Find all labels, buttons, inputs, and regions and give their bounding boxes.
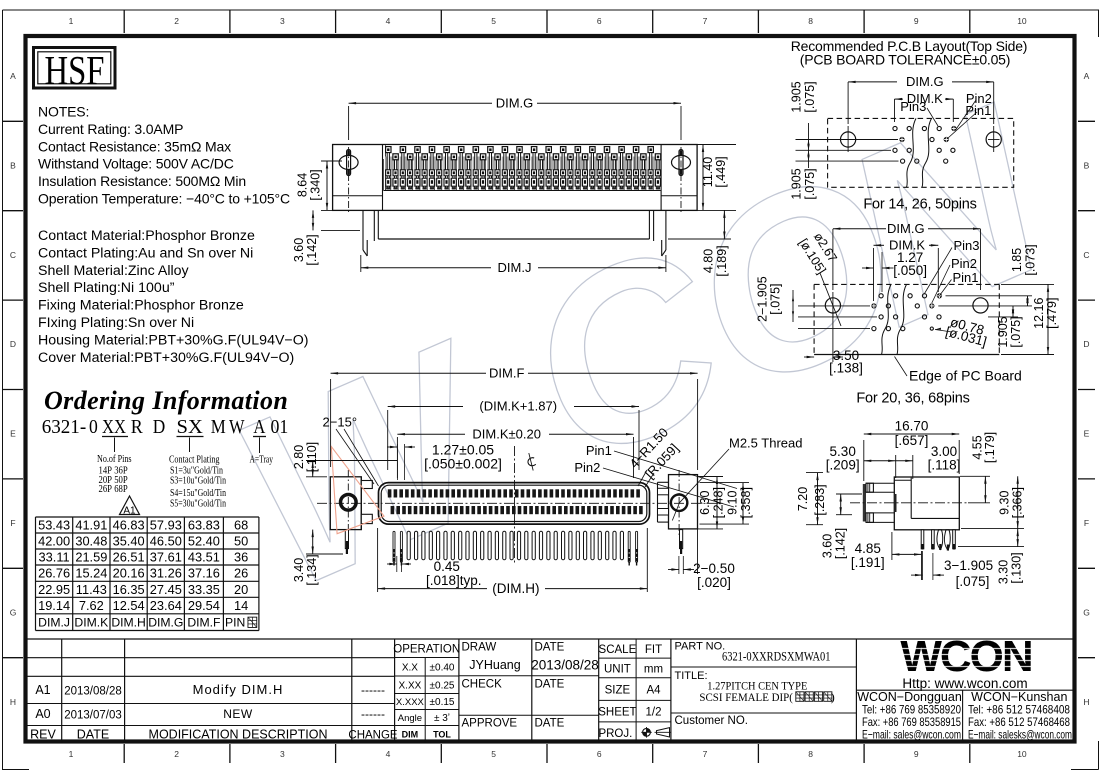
svg-text:31.26: 31.26 [150,566,182,581]
svg-text:0: 0 [89,417,98,438]
pin comb [393,531,395,562]
svg-text:W: W [229,417,245,438]
horizontal centerline [317,502,724,504]
svg-text:1.85: 1.85 [1010,248,1024,272]
svg-text:NEW: NEW [223,707,253,721]
dimension 6.30 and 9.10 right [698,476,724,478]
top connector rear view body [333,145,697,211]
svg-text:[.020]: [.020] [697,575,731,590]
svg-text:9: 9 [914,749,919,759]
svg-text:2−0.50: 2−0.50 [693,561,735,576]
svg-text:DATE: DATE [77,728,109,742]
dimension table [36,516,259,518]
svg-text:12.16: 12.16 [1032,298,1046,329]
svg-text:[.138]: [.138] [829,361,863,376]
svg-text:TOL: TOL [433,730,451,740]
svg-text:2: 2 [174,16,179,26]
svg-text:SCSI FEMALE DIP(: SCSI FEMALE DIP( [699,690,793,704]
svg-text:23.64: 23.64 [150,598,182,613]
svg-text:33.35: 33.35 [188,582,220,597]
svg-text:7: 7 [703,16,708,26]
svg-text:4.80: 4.80 [701,249,715,273]
svg-text:3.60: 3.60 [292,238,306,262]
svg-text:Shell Plating:Ni 100u”: Shell Plating:Ni 100u” [38,280,175,296]
right mounting ear screw [672,155,691,169]
svg-text:21.59: 21.59 [75,550,107,565]
svg-text:2013/08/28: 2013/08/28 [64,686,122,698]
svg-text:11.43: 11.43 [76,582,107,597]
svg-text:Ordering Information: Ordering Information [44,386,288,415]
svg-text:XX: XX [102,417,126,438]
svg-text:[.189]: [.189] [715,245,729,276]
svg-text:M2.5 Thread: M2.5 Thread [729,436,802,451]
vertical centerline [514,446,516,564]
layout2 2-1.905 dim left [792,290,794,322]
svg-text:(DIM.H): (DIM.H) [492,581,539,596]
svg-text:[.248]: [.248] [712,487,726,518]
svg-text:DIM.F: DIM.F [489,365,524,380]
left mounting ear screw [339,155,358,169]
svg-text:7.20: 7.20 [796,487,810,511]
dimension 9.30 [961,528,1024,530]
lower skirt of rear view [377,210,379,239]
dimension DIM.K+1.87 [387,410,389,470]
layout2 3.50 dim [832,311,834,362]
svg-text:8: 8 [808,749,813,759]
svg-text:F: F [1084,518,1089,528]
svg-text:6321-: 6321- [42,417,86,438]
svg-text:27.45: 27.45 [150,582,182,597]
svg-text:G: G [1083,607,1090,617]
revision triangle A1 [120,496,140,515]
dimension 3-1.905 [922,551,924,580]
svg-text:PIN: PIN [225,616,245,630]
svg-text:NOTES:: NOTES: [38,104,89,120]
layout2 pin holes [879,294,883,298]
layout1 dashed board outline [828,118,1014,187]
svg-text:8: 8 [808,16,813,26]
svg-text:[.283]: [.283] [813,484,827,515]
svg-text:Shell Material:Zinc Alloy: Shell Material:Zinc Alloy [38,263,190,279]
svg-text:Pin1: Pin1 [953,270,979,285]
svg-text:A: A [253,417,265,438]
svg-text:63.83: 63.83 [188,518,220,533]
svg-text:mm: mm [644,664,663,676]
svg-text:68P: 68P [114,483,128,495]
svg-text:SCALE: SCALE [599,644,637,656]
svg-text:Modify DIM.H: Modify DIM.H [193,682,284,697]
dimension 3.30 [958,546,1024,548]
svg-text:10: 10 [1017,16,1027,26]
svg-text:1.905: 1.905 [790,81,804,112]
svg-text:68: 68 [234,518,248,533]
svg-text:DIM.F: DIM.F [187,616,220,630]
svg-text:Angle: Angle [398,713,422,724]
svg-text:DIM.J: DIM.J [498,260,532,275]
svg-text:PROJ.: PROJ. [598,728,632,740]
scale/unit/size/sheet/proj column [670,639,672,743]
ear right edge extension line [697,475,699,574]
dimension 3.60 side [836,493,862,495]
front view right ear [669,475,698,529]
layout1 DIM.K dim [894,99,896,122]
svg-text:DATE: DATE [535,718,565,730]
svg-text:Cover Material:PBT+30%G.F(UL9: Cover Material:PBT+30%G.F(UL94V−O) [38,350,294,366]
svg-text:26.51: 26.51 [113,550,145,565]
svg-text:DRAW: DRAW [462,642,497,654]
side view shell face [863,484,866,522]
svg-text:OPERATION: OPERATION [393,644,460,656]
centerline symbol [526,452,537,471]
dimension 4.55 [960,475,990,477]
svg-text:[.142]: [.142] [305,234,319,265]
svg-text:2013/07/03: 2013/07/03 [64,710,122,722]
svg-text:±0.25: ±0.25 [430,681,455,692]
flange bump [894,494,897,512]
orange revision triangle [331,447,384,534]
svg-text:): ) [831,690,835,704]
svg-text:FIxing Plating:Sn over Ni: FIxing Plating:Sn over Ni [38,315,194,331]
svg-text:26.76: 26.76 [38,566,70,581]
svg-text:SHEET: SHEET [598,707,636,719]
svg-text:Contact Material:Phosphor Br: Contact Material:Phosphor Bronze [38,228,255,244]
left ear threaded ring [341,495,357,511]
svg-text:A1: A1 [35,683,50,697]
svg-text:CHANGE: CHANGE [348,730,398,742]
svg-text:For 20, 36, 68pins: For 20, 36, 68pins [856,391,969,407]
right ear screw hole [671,495,687,511]
layout2 DIM.G [832,229,834,290]
svg-text:37.61: 37.61 [150,550,182,565]
svg-text:[.449]: [.449] [714,156,728,187]
svg-text:Customer NO.: Customer NO. [675,715,749,727]
side view housing block [894,477,959,530]
projection symbol [643,728,651,736]
svg-text:X.XX: X.XX [399,681,422,692]
svg-text:------: ------ [361,683,385,697]
svg-text:[.130]: [.130] [1009,552,1023,583]
svg-text:A=Tray: A=Tray [250,454,274,466]
svg-text:42.00: 42.00 [38,534,70,549]
svg-text:SIZE: SIZE [605,685,631,697]
draw/check/approve columns [531,639,533,743]
svg-text:C: C [10,250,16,260]
svg-text:E−mail: salesks@wcon.com: E−mail: salesks@wcon.com [968,728,1072,742]
svg-text:4.85: 4.85 [855,541,881,556]
dimension 5.30 [895,455,897,478]
title block frame [26,638,1075,640]
svg-text:36: 36 [234,550,248,565]
svg-text:For 14, 26, 50pins: For 14, 26, 50pins [863,197,976,213]
svg-text:6: 6 [597,16,602,26]
board lock pins [345,530,348,549]
svg-text:Edge of PC Board: Edge of PC Board [909,368,1022,384]
svg-text:Pin2: Pin2 [574,460,600,475]
svg-text:[.075]: [.075] [803,81,817,112]
svg-text:A0: A0 [35,707,50,721]
svg-text:53.43: 53.43 [38,518,70,533]
svg-text:Pin3: Pin3 [900,99,926,114]
svg-text:14: 14 [234,598,248,613]
svg-text:3: 3 [280,16,285,26]
svg-text:11.40: 11.40 [701,157,715,187]
svg-text:DIM.K: DIM.K [74,616,108,630]
dimension 2-0.50 [678,556,680,574]
svg-text:HSF: HSF [45,47,105,93]
svg-text:2013/08/28: 2013/08/28 [531,658,599,673]
svg-text:C: C [1083,250,1089,260]
svg-text:Withstand Voltage: 500V AC/: Withstand Voltage: 500V AC/DC [38,156,234,172]
svg-text:MODIFICATION DESCRIPTION: MODIFICATION DESCRIPTION [149,728,328,742]
HSF logo box [34,48,116,89]
svg-text:DIM: DIM [402,730,419,740]
svg-text:3−1.905: 3−1.905 [944,558,993,573]
svg-text:4: 4 [386,16,391,26]
dimension 8.64 left [321,160,342,162]
svg-text:DIM.K±0.20: DIM.K±0.20 [472,426,541,441]
dimension DIM.K pm 0.20 [396,437,398,478]
svg-text:D: D [1083,339,1089,349]
svg-text:10: 10 [1017,749,1027,759]
svg-text:[.358]: [.358] [739,487,753,518]
svg-text:[.479]: [.479] [1045,298,1059,329]
svg-text:JYHuang: JYHuang [469,658,520,672]
svg-text:B: B [1084,160,1090,170]
svg-text:3.40: 3.40 [292,558,306,582]
layout2 dashed board outline [814,283,999,285]
svg-text:E: E [1084,429,1090,439]
svg-text:D: D [10,339,16,349]
svg-text:20.16: 20.16 [113,566,145,581]
svg-text:7: 7 [703,749,708,759]
svg-text:No.of Pins: No.of Pins [97,453,132,465]
layout1 1.905 dims [808,123,810,168]
tolerance OPERATION column [458,639,460,743]
svg-text:X.XXX: X.XXX [396,697,425,708]
svg-text:H: H [1083,697,1089,707]
svg-text:2−15°: 2−15° [323,415,357,430]
front view contact rows [388,489,392,497]
dimension 4.80 right [668,238,731,240]
svg-text:[.018]typ.: [.018]typ. [426,573,482,588]
svg-text:Contact Plating:Au and Sn: Contact Plating:Au and Sn over Ni [38,245,253,261]
svg-text:5: 5 [491,749,496,759]
dimension DIM.H bottom [377,528,379,592]
svg-text:D: D [153,417,166,438]
svg-text:TITLE:: TITLE: [675,670,708,682]
svg-text:19.14: 19.14 [38,598,70,613]
svg-text:1/2: 1/2 [646,707,662,719]
svg-text:A1: A1 [123,506,136,517]
dimension 1.27 pitch [396,444,398,480]
svg-text:20: 20 [234,582,248,597]
svg-text:9: 9 [914,16,919,26]
svg-text:[.209]: [.209] [826,458,860,473]
svg-text:± 3ʼ: ± 3ʼ [434,713,450,724]
svg-text:[.657]: [.657] [895,433,929,448]
svg-text:3: 3 [280,749,285,759]
svg-text:Pin1: Pin1 [965,103,991,118]
svg-text:6321-0XXRDSXMWA01: 6321-0XXRDSXMWA01 [722,649,831,664]
svg-text:22.95: 22.95 [38,582,70,597]
dimension 3.60 left [321,229,360,231]
svg-text:3.60: 3.60 [821,534,835,558]
svg-text:33.11: 33.11 [39,550,70,565]
svg-text:7.62: 7.62 [79,598,104,613]
side view pins [921,530,924,549]
dimension DIM.J bottom [360,255,362,272]
svg-text:APPROVE: APPROVE [462,718,518,730]
dimension 3.40 left [306,553,343,555]
svg-text:Pin3: Pin3 [954,238,980,253]
svg-text:[.142]: [.142] [834,528,848,559]
svg-text:9.10: 9.10 [725,490,739,514]
svg-text:16.70: 16.70 [895,419,929,434]
svg-text:DIM.J: DIM.J [38,616,70,630]
front view left ear [330,477,361,530]
dimension DIM.G top [348,106,350,140]
svg-text:REV: REV [30,728,56,742]
WCON watermark [201,53,1082,640]
layout1 break lines [907,118,917,187]
svg-text:SX: SX [177,417,203,438]
svg-text:1: 1 [69,16,74,26]
svg-text:12.54: 12.54 [113,598,145,613]
svg-text:[.075]: [.075] [956,574,990,589]
svg-text:X.X: X.X [402,663,418,674]
svg-text:15.24: 15.24 [75,566,107,581]
svg-text:DIM.G: DIM.G [906,74,944,89]
svg-text:46.50: 46.50 [150,534,182,549]
svg-text:DATE: DATE [535,679,565,691]
svg-text:Fixing Material:Phosphor Bro: Fixing Material:Phosphor Bronze [38,298,244,314]
svg-text:[.118]: [.118] [928,458,961,473]
svg-text:4: 4 [386,749,391,759]
svg-text:Operation Temperature: −40°C: Operation Temperature: −40°C to +105°C [38,191,290,207]
svg-text:2.80: 2.80 [292,445,306,469]
layout2 12.16 dim right [1001,283,1054,285]
svg-text:DIM.H: DIM.H [111,616,146,630]
svg-text:1.905: 1.905 [790,168,804,199]
svg-text:[.075]: [.075] [768,283,782,314]
svg-text:6.30: 6.30 [698,490,712,514]
svg-text:50: 50 [234,534,248,549]
svg-text:M: M [211,417,226,438]
dimension 2.80 left [306,460,397,462]
layout2 reference lines [946,295,1033,297]
layout1 mounting holes [841,132,856,147]
svg-text:CHECK: CHECK [462,679,503,691]
svg-text:PART NO.: PART NO. [675,641,726,653]
svg-text:26: 26 [234,566,248,581]
svg-text:A: A [10,71,16,81]
svg-text:Current Rating: 3.0AMP: Current Rating: 3.0AMP [38,121,183,137]
svg-text:DATE: DATE [535,642,565,654]
svg-text:52.40: 52.40 [188,534,220,549]
svg-text:6: 6 [597,749,602,759]
svg-text:DIM.G: DIM.G [148,616,183,630]
side view centerline [850,502,968,504]
svg-text:[.073]: [.073] [1024,244,1038,275]
svg-text:UNIT: UNIT [604,664,631,676]
svg-text:[.134]: [.134] [305,554,319,585]
svg-text:Contact Resistance: 35mΩ Ma: Contact Resistance: 35mΩ Max [38,138,231,154]
svg-text:E: E [10,429,16,439]
svg-text:WCON: WCON [900,632,1031,681]
svg-text:Insulation Resistance: 500MΩ: Insulation Resistance: 500MΩ Min [38,173,246,189]
svg-text:±0.15: ±0.15 [430,697,455,708]
svg-text:46.83: 46.83 [113,518,145,533]
svg-text:8.64: 8.64 [296,173,310,197]
layout2 1.85 dim right [1027,296,1029,306]
svg-text:[.110]: [.110] [305,442,319,472]
dimension 0.45 typ [396,556,398,572]
svg-text:29.54: 29.54 [188,598,220,613]
svg-text:(PCB BOARD TOLERANCE±0.05): (PCB BOARD TOLERANCE±0.05) [800,52,1010,68]
svg-text:(DIM.K+1.87): (DIM.K+1.87) [479,399,557,414]
svg-text:35.40: 35.40 [113,534,145,549]
svg-text:E−mail: sales@wcon.com: E−mail: sales@wcon.com [862,728,961,742]
svg-text:37.16: 37.16 [188,566,220,581]
svg-text:H: H [10,697,16,707]
svg-text:DIM.G: DIM.G [887,221,925,236]
svg-text:A: A [1084,71,1090,81]
sheet outer thin frame [3,9,1100,11]
svg-text:S5=30u"Gold/Tin: S5=30u"Gold/Tin [170,498,226,510]
part no / title region [855,639,857,743]
layout2 break lines [882,284,892,354]
svg-text:A4: A4 [646,685,661,697]
svg-text:DIM.G: DIM.G [496,95,534,110]
svg-text:G: G [10,607,17,617]
svg-text:FIT: FIT [645,644,662,656]
svg-text:B: B [10,160,16,170]
dimension 11.40 right [697,144,736,146]
svg-text:43.51: 43.51 [188,550,220,565]
dimension 16.70 [863,440,865,481]
svg-text:5: 5 [491,16,496,26]
svg-text:[.075]: [.075] [803,168,817,199]
layout2 mounting holes [825,298,840,313]
layout2 1.27 dim [881,252,883,292]
svg-text:1: 1 [69,749,74,759]
dimension DIM.F [330,379,332,467]
svg-text:57.93: 57.93 [150,518,182,533]
layout1 pin holes [893,126,897,130]
front view shell [379,483,650,524]
svg-text:2: 2 [174,749,179,759]
layout1 left reference lines [796,139,899,141]
svg-text:[.075]: [.075] [1009,316,1023,347]
svg-text:S3=10u"Gold/Tin: S3=10u"Gold/Tin [170,475,226,487]
dimension 7.20 side [806,472,823,474]
svg-text:Pin2: Pin2 [951,256,977,271]
svg-text:[.050±0.002]: [.050±0.002] [424,456,502,472]
svg-text:[.191]: [.191] [851,555,885,570]
svg-text:------: ------ [361,707,385,721]
dimension 3.00 [912,455,914,479]
svg-text:16.35: 16.35 [113,582,145,597]
row ticks and letters [3,120,24,122]
svg-text:R: R [131,417,143,438]
layout2 DIM.K [873,248,875,301]
svg-text:F: F [10,518,15,528]
svg-text:41.91: 41.91 [75,518,107,533]
svg-text:[.340]: [.340] [309,169,323,200]
svg-text:[.366]: [.366] [1011,487,1025,518]
svg-text:Http: www.wcon.com: Http: www.wcon.com [902,676,1027,691]
svg-text:[.050]: [.050] [893,263,927,278]
